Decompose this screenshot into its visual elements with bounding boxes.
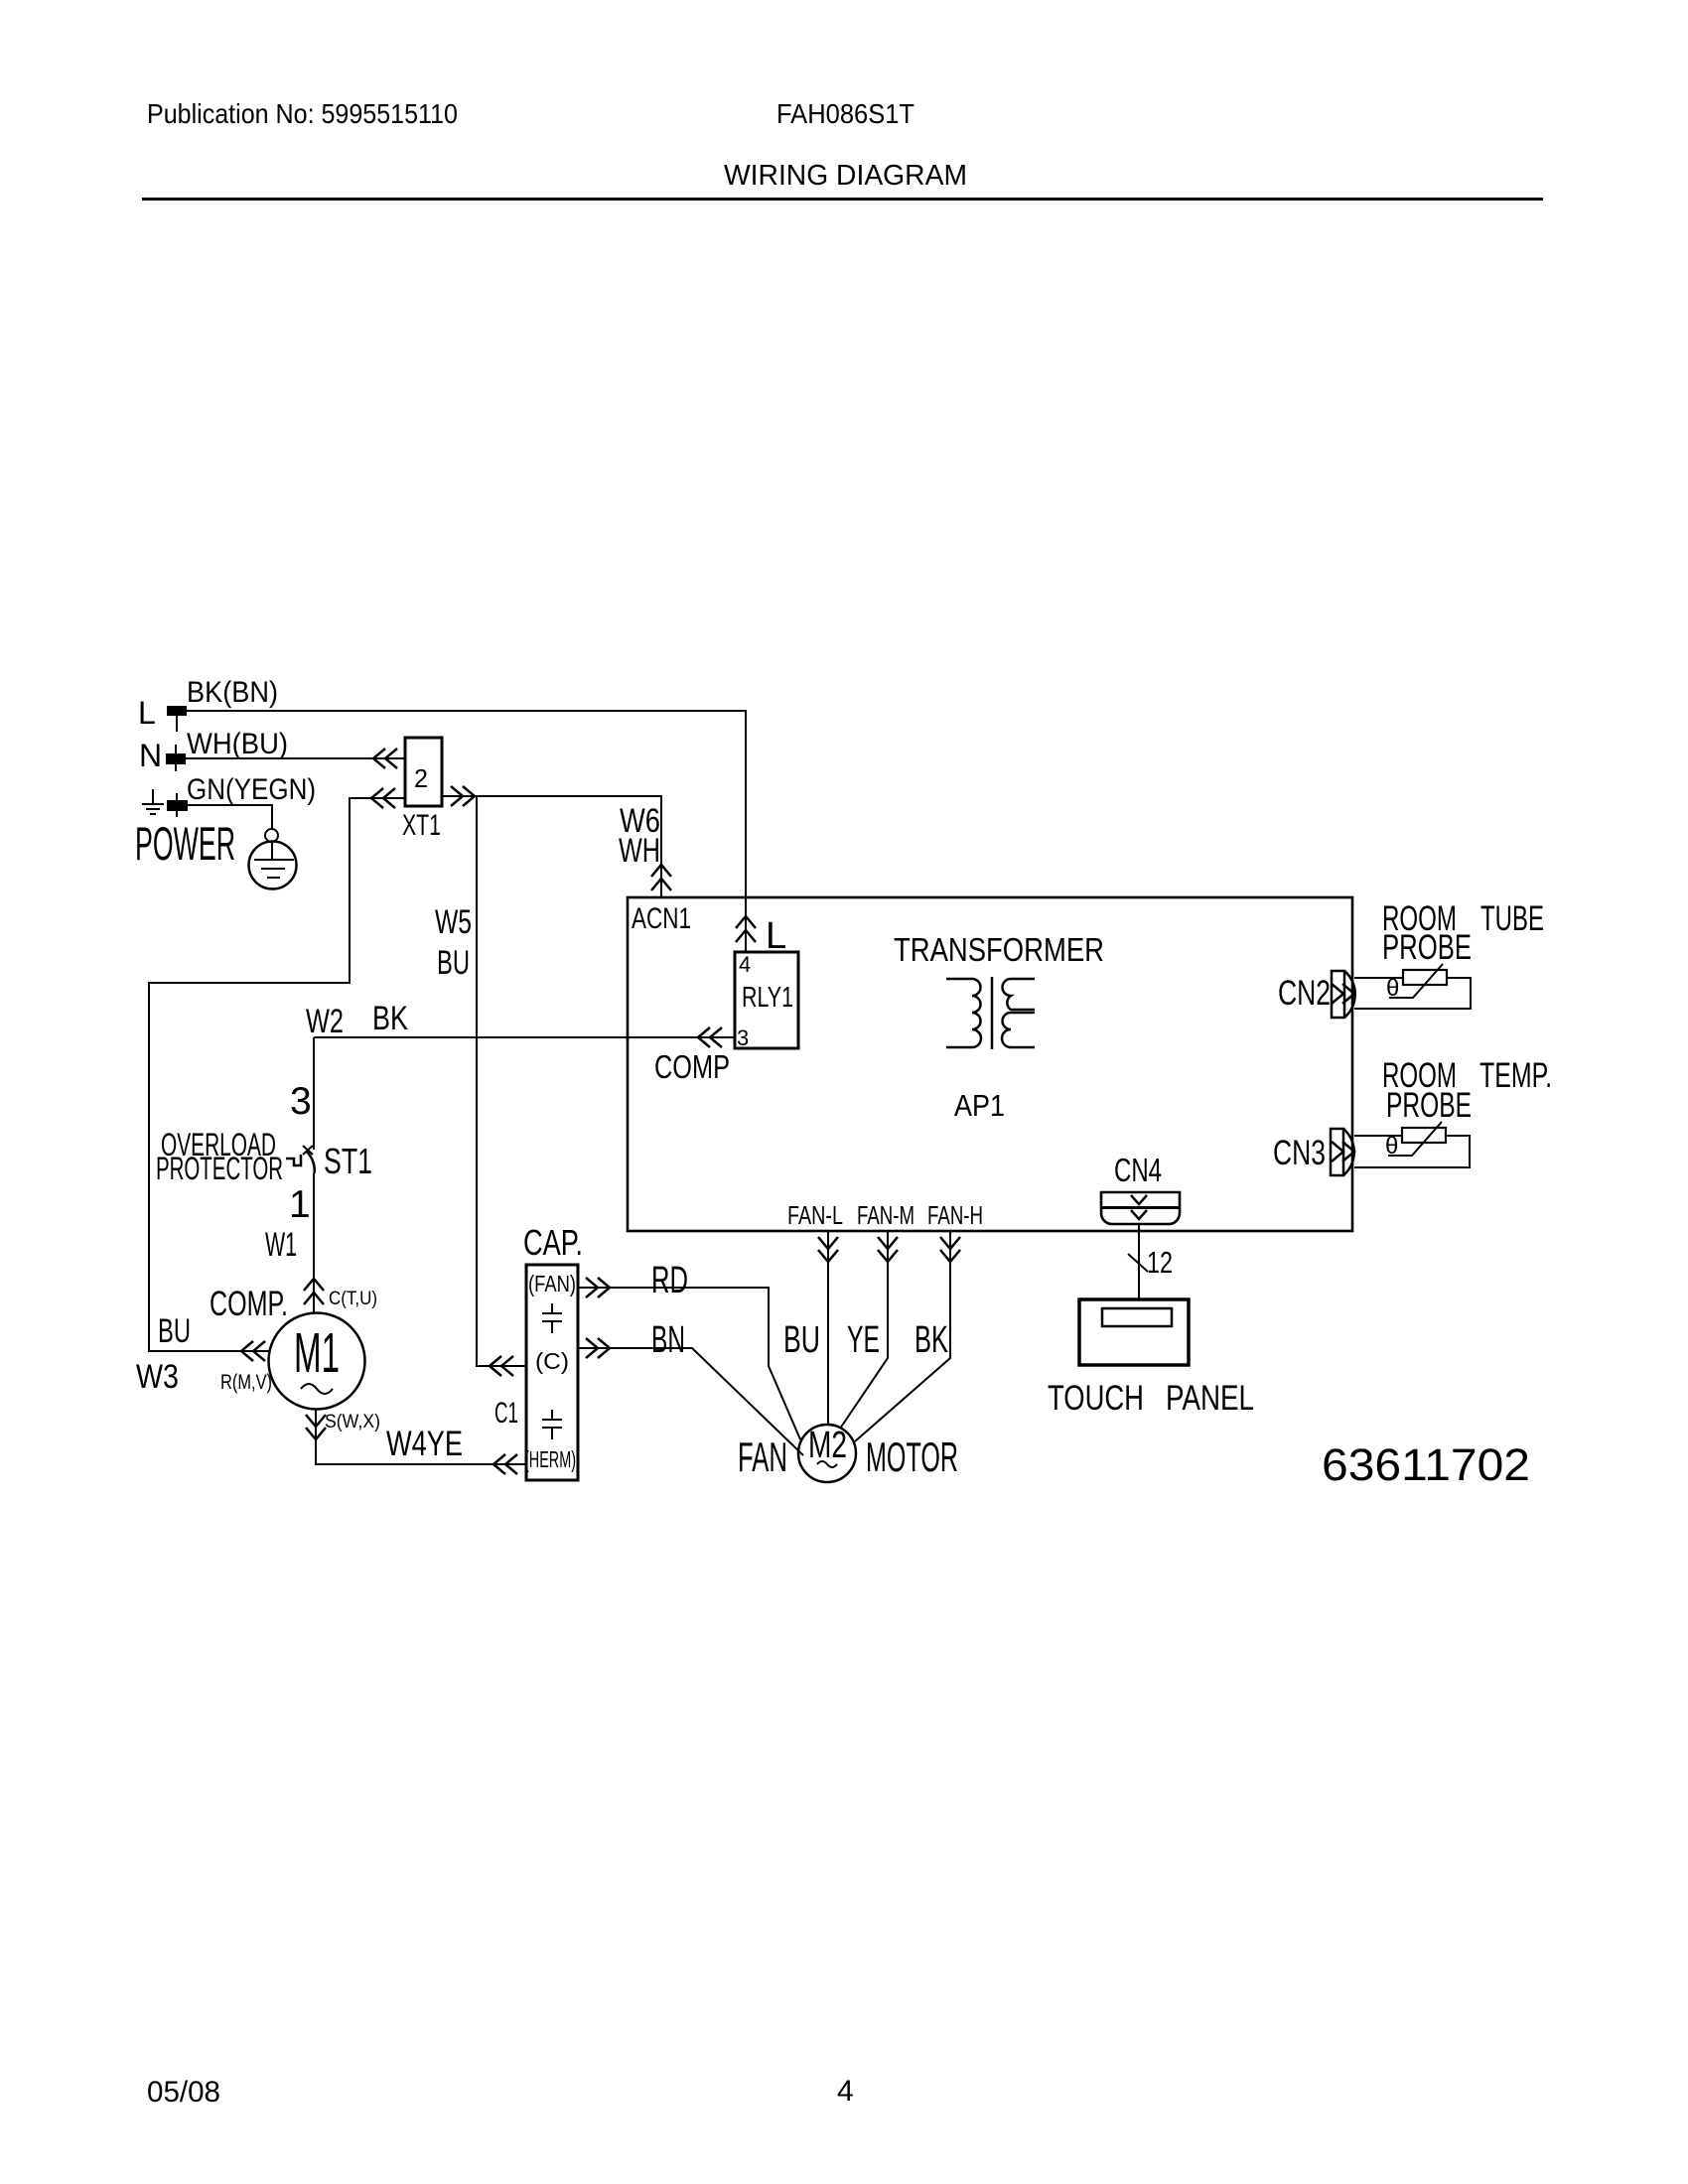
svg-text:M1: M1 — [294, 1321, 340, 1385]
svg-text:POWER: POWER — [135, 817, 235, 870]
svg-text:CN4: CN4 — [1114, 1152, 1162, 1188]
svg-text:3: 3 — [737, 1025, 749, 1050]
svg-text:W1: W1 — [265, 1226, 297, 1264]
svg-text:RLY1: RLY1 — [742, 982, 793, 1014]
svg-text:R(M,V): R(M,V) — [220, 1371, 272, 1394]
wire ST1 pin3 from W2 — [313, 1037, 315, 1150]
svg-text:PANEL: PANEL — [1166, 1379, 1254, 1418]
svg-text:CN3: CN3 — [1273, 1134, 1326, 1172]
svg-text:BU: BU — [158, 1312, 191, 1350]
svg-text:BU: BU — [437, 944, 470, 982]
C1 cap symbol lower — [542, 1410, 562, 1439]
svg-text:YE: YE — [847, 1319, 880, 1361]
svg-text:BK: BK — [914, 1319, 948, 1361]
svg-text:W4YE: W4YE — [386, 1425, 463, 1463]
terminal N — [166, 753, 186, 764]
capacitor C1 box — [526, 1265, 578, 1480]
terminal block XT1 — [405, 738, 442, 806]
svg-text:C(T,U): C(T,U) — [329, 1289, 377, 1309]
wire CN4 to touch panel (12 conductors) — [1138, 1224, 1140, 1298]
wire RLY1 pin3 COMP to ST1 (W2 BK) — [314, 1036, 735, 1038]
wire L to RLY1 pin4 — [187, 711, 746, 952]
wire N to XT1 — [186, 757, 405, 759]
room temp probe thermistor — [1354, 1136, 1470, 1167]
svg-text:BN: BN — [651, 1319, 685, 1361]
svg-text:W5: W5 — [435, 903, 472, 941]
svg-text:FAN-M: FAN-M — [857, 1200, 914, 1230]
svg-text:ACN1: ACN1 — [632, 902, 691, 935]
touch panel box — [1079, 1299, 1189, 1365]
fan motor M2 — [798, 1425, 856, 1482]
svg-text:TRANSFORMER: TRANSFORMER — [894, 931, 1104, 968]
svg-text:63611702: 63611702 — [1322, 1439, 1530, 1490]
room tube probe thermistor — [1354, 978, 1471, 1009]
transformer T1 symbol — [946, 977, 1035, 1049]
wire C1 FAN to fan motor (RD) — [578, 1288, 800, 1439]
svg-text:WH(BU): WH(BU) — [187, 728, 288, 760]
overload protector ST1 switch — [286, 1146, 315, 1173]
svg-text:PROBE: PROBE — [1386, 1086, 1472, 1125]
svg-text:FAH086S1T: FAH086S1T — [776, 98, 914, 129]
svg-text:W2: W2 — [306, 1003, 344, 1040]
svg-text:BK: BK — [372, 1000, 408, 1037]
svg-text:TOUCH: TOUCH — [1048, 1379, 1144, 1418]
wire M1 S pin to capacitor HERM (W4YE) — [316, 1409, 526, 1464]
svg-text:COMP: COMP — [654, 1048, 730, 1085]
ground symbol at input — [142, 789, 164, 814]
svg-text:GN(YEGN): GN(YEGN) — [187, 773, 316, 806]
svg-text:S(W,X): S(W,X) — [325, 1412, 380, 1433]
svg-text:COMP.: COMP. — [210, 1285, 288, 1323]
wire FAN-M to fan motor — [840, 1231, 888, 1429]
svg-text:2: 2 — [414, 763, 428, 793]
svg-text:3: 3 — [290, 1080, 312, 1123]
svg-text:12: 12 — [1147, 1245, 1173, 1280]
wire C1 C to fan motor (BN) — [578, 1348, 803, 1455]
svg-text:W3: W3 — [136, 1358, 179, 1396]
svg-text:θ: θ — [1386, 975, 1399, 1002]
wire XT1 right output to ACN1 (W6 WH) — [442, 796, 661, 897]
svg-text:L: L — [766, 915, 786, 957]
svg-text:TEMP.: TEMP. — [1479, 1056, 1552, 1095]
relay RLY1 — [735, 952, 798, 1048]
svg-text:(FAN): (FAN) — [528, 1271, 576, 1297]
svg-text:FAN-L: FAN-L — [787, 1200, 843, 1230]
wire W5 BU down to capacitor C — [477, 796, 526, 1366]
terminal L — [167, 706, 187, 716]
svg-text:MOTOR: MOTOR — [866, 1433, 958, 1480]
svg-text:4: 4 — [837, 2075, 854, 2108]
svg-text:ST1: ST1 — [324, 1141, 372, 1181]
svg-text:BK(BN): BK(BN) — [187, 676, 278, 709]
svg-text:L: L — [138, 695, 156, 731]
svg-text:C1: C1 — [494, 1397, 518, 1430]
svg-text:05/08: 05/08 — [147, 2076, 220, 2109]
svg-text:M2: M2 — [808, 1425, 847, 1466]
control board AP1 box — [628, 897, 1352, 1231]
wire FAN-H to fan motor — [855, 1231, 950, 1441]
svg-text:CAP.: CAP. — [523, 1222, 583, 1263]
wire ST1 pin1 to M1 — [313, 1173, 315, 1313]
svg-text:FAN: FAN — [738, 1433, 787, 1480]
svg-text:(HERM): (HERM) — [524, 1446, 576, 1472]
C1 cap symbol upper — [542, 1303, 562, 1333]
svg-text:BU: BU — [783, 1319, 820, 1361]
compressor motor M1 — [269, 1313, 365, 1410]
svg-text:RD: RD — [651, 1260, 688, 1301]
svg-text:(C): (C) — [535, 1348, 569, 1374]
svg-text:Publication No: 5995515110: Publication No: 5995515110 — [147, 98, 458, 129]
svg-text:PROBE: PROBE — [1382, 928, 1472, 967]
svg-text:4: 4 — [739, 952, 751, 977]
M1 left arrow (R pin) — [241, 1341, 253, 1361]
svg-text:1: 1 — [289, 1183, 311, 1226]
wire GN to earth — [188, 805, 272, 829]
svg-text:XT1: XT1 — [402, 809, 441, 842]
wire XT1 left output (BU) — [149, 798, 405, 1351]
svg-text:TUBE: TUBE — [1480, 899, 1544, 938]
svg-text:θ: θ — [1385, 1133, 1398, 1160]
svg-text:PROTECTOR: PROTECTOR — [156, 1151, 283, 1186]
svg-text:AP1: AP1 — [954, 1088, 1005, 1123]
header rule — [142, 198, 1543, 201]
svg-text:WH: WH — [619, 832, 660, 870]
svg-text:CN2: CN2 — [1278, 974, 1331, 1013]
svg-text:N: N — [139, 738, 162, 773]
svg-text:FAN-H: FAN-H — [927, 1200, 983, 1230]
protective earth circle symbol — [249, 842, 297, 889]
terminal GN — [167, 800, 188, 811]
protective earth small circle — [265, 829, 278, 842]
wire FAN-L to fan motor — [827, 1231, 829, 1426]
svg-text:WIRING DIAGRAM: WIRING DIAGRAM — [724, 160, 967, 192]
